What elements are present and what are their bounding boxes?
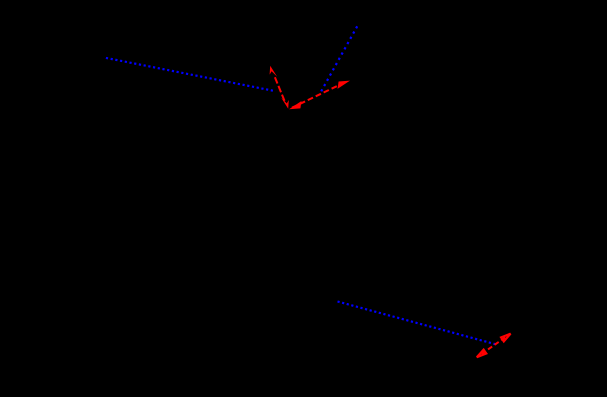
E-field arrow B (red dashed double arrow, toward reflected ray) — [289, 81, 350, 110]
E-field arrow C (red dashed double arrow, on refracted ray) — [477, 334, 511, 358]
E-field arrow A (red dashed double arrow, steep, near incidence point) — [270, 66, 289, 109]
incident ray (blue dotted) — [106, 58, 273, 91]
refracted ray (blue dotted) — [338, 302, 497, 345]
reflected ray (blue dotted) — [321, 26, 357, 91]
